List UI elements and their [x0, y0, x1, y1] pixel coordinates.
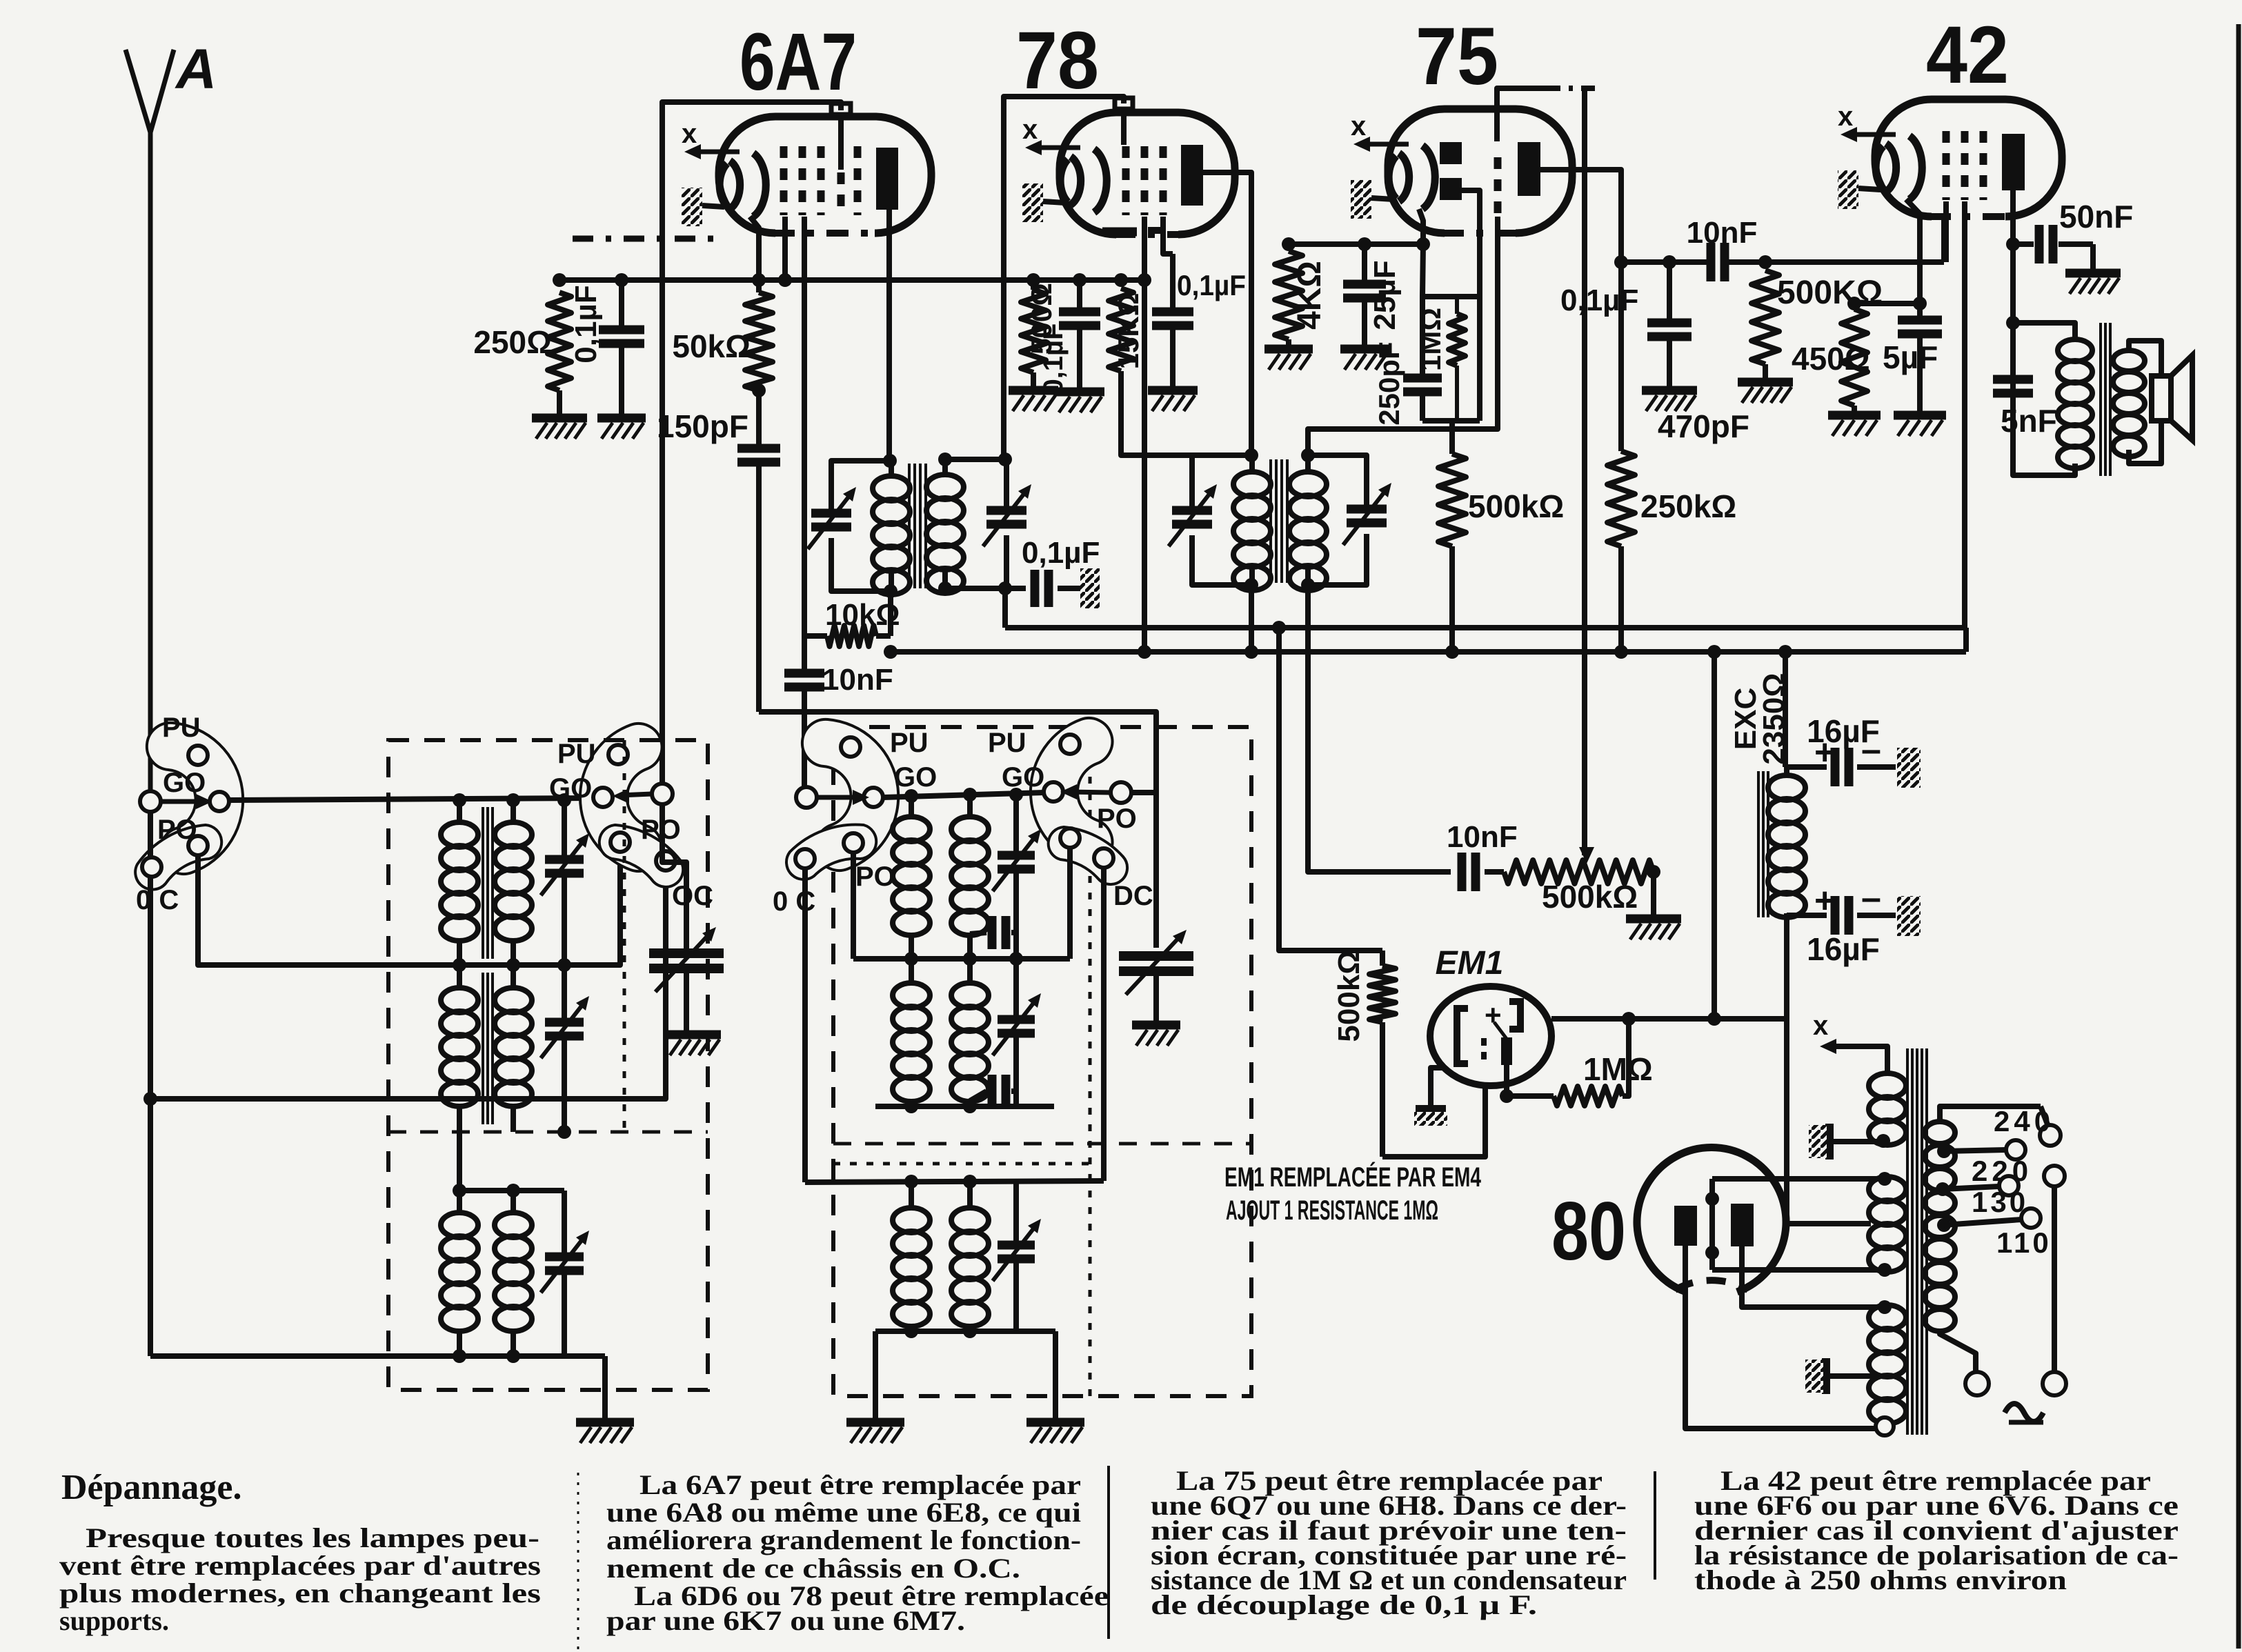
svg-text:130: 130: [1972, 1186, 2028, 1218]
arrow: [161, 799, 204, 804]
ground: [532, 414, 587, 423]
resistor 15KΩ: [1114, 273, 1128, 287]
contact from 10nF: [796, 787, 817, 808]
antenna A: [126, 50, 150, 790]
trimmer cap A box2: [1013, 795, 1019, 855]
tube 6A7 grids: [780, 146, 788, 215]
wire 75 anode lead: [1540, 170, 1621, 262]
power transformer filament winding: [1869, 1305, 1906, 1330]
IF transformer T1 secondary: [998, 452, 1012, 466]
wire EM1 target lead: [1504, 1065, 1509, 1096]
resistor 500kΩ EM1: [1369, 966, 1396, 1022]
trimmer cap C box1: [562, 1191, 567, 1257]
switch rotor OC tail: [135, 825, 221, 890]
svg-text:A: A: [175, 38, 217, 101]
svg-text:470pF: 470pF: [1658, 408, 1749, 444]
wire oscillator line: [759, 712, 1156, 948]
svg-text:2350Ω: 2350Ω: [1757, 673, 1791, 764]
svg-text:PO: PO: [157, 815, 197, 845]
tube 6A7 chassis dashes: [573, 236, 717, 242]
capacitor 16µF lower: [1787, 913, 1827, 918]
wire 6A7 grid frame: [662, 102, 841, 790]
wire: [1121, 371, 1192, 455]
svg-text:AJOUT 1 RESISTANCE 1MΩ: AJOUT 1 RESISTANCE 1MΩ: [1226, 1195, 1438, 1226]
wire AVC line: [752, 273, 766, 287]
svg-text:PU: PU: [890, 728, 929, 758]
contact osc: [1111, 782, 1131, 803]
svg-text:10nF: 10nF: [822, 663, 893, 697]
capacitor 10nF coupling det: [1458, 853, 1467, 891]
tube 42 cathode: [1876, 146, 1883, 189]
resistor 1MΩ: [1554, 1086, 1623, 1106]
field coil EXC 2350Ω: [1757, 771, 1760, 917]
wire 80 plate left lead: [1685, 1246, 1876, 1429]
column divider: [1107, 1466, 1110, 1639]
svg-text:4KΩ: 4KΩ: [1291, 261, 1328, 330]
switch rotor box2 right: [1031, 718, 1112, 866]
tube 78 heater: [1022, 183, 1043, 222]
svg-text:Presque toutes les lampes peu-: Presque toutes les lampes peu-: [86, 1522, 539, 1553]
IF transformer T1 core: [908, 464, 911, 588]
wire coupling line: [1621, 259, 1709, 265]
switch rotor PU-GO-PO box1 left: [147, 723, 243, 874]
tube 42 heater: [1838, 170, 1858, 209]
tube 78 cathode: [1060, 159, 1068, 202]
padder capacitor A box2: [970, 933, 986, 934]
coil group A box2: [909, 795, 914, 817]
tube 80: [1637, 1148, 1786, 1292]
ground: [1264, 345, 1313, 354]
contact holes: [188, 746, 208, 765]
tube 75 anode: [1518, 142, 1540, 196]
wire box2 grounds: [873, 1331, 878, 1418]
coil group B box1: [457, 965, 462, 988]
wire EXC drop: [1783, 652, 1788, 767]
wire tap 240: [1940, 1106, 2041, 1122]
wire EM1 cathode to ground: [1431, 1068, 1443, 1106]
ground: [1828, 411, 1881, 420]
svg-text:par une 6K7 ou une 6M7.: par une 6K7 ou une 6M7.: [606, 1605, 965, 1636]
switch rotor box1 right: [580, 724, 662, 871]
terminal mains 2: [2044, 1166, 2065, 1186]
tube 78: [1060, 112, 1235, 235]
tube 6A7: [719, 117, 931, 233]
wire GO line box2: [883, 793, 1044, 797]
svg-text:6A7: 6A7: [740, 17, 857, 108]
potentiometer 500kΩ: [1504, 860, 1654, 884]
capacitor 10nF coupling AF: [1707, 243, 1716, 281]
coil group C box2: [909, 1182, 914, 1208]
svg-text:0,1µF: 0,1µF: [1038, 323, 1069, 394]
ground: [1132, 1021, 1180, 1030]
output transformer core: [2099, 323, 2102, 476]
trimmer cap C box2: [1013, 1182, 1019, 1245]
resistor 250Ω: [553, 273, 566, 287]
svg-text:PO: PO: [1097, 804, 1137, 834]
wire cathode lead: [750, 217, 759, 292]
capacitor 0,1µF: [615, 273, 628, 287]
svg-text:10nF: 10nF: [1687, 216, 1758, 250]
capacitor 16µF upper: [1787, 764, 1827, 770]
svg-text:–: –: [1861, 878, 1881, 918]
tube EM1: [1430, 986, 1551, 1086]
tube 75 heater: [1351, 180, 1371, 219]
ground: [1822, 1358, 1830, 1394]
svg-text:500kΩ: 500kΩ: [1468, 488, 1564, 524]
wire OC line: [152, 870, 666, 1099]
arrow: [817, 795, 862, 800]
column divider: [577, 1473, 579, 1650]
arrow: [619, 794, 652, 795]
svg-text:supports.: supports.: [59, 1605, 169, 1636]
svg-text:110: 110: [1996, 1226, 2052, 1259]
power transformer mains winding: [1925, 1122, 1955, 1144]
svg-text:0 C: 0 C: [136, 885, 179, 915]
capacitor 0,1µF: [1073, 273, 1087, 287]
wire 42 screen lead: [1962, 201, 1967, 628]
svg-text:10kΩ: 10kΩ: [825, 598, 900, 632]
wire PO line: [198, 852, 620, 965]
contact holes: [1060, 735, 1080, 754]
capacitor 50nF: [2013, 241, 2034, 247]
resistor 450Ω: [1841, 309, 1867, 406]
ground: [597, 414, 646, 423]
wire 42 cathode lead: [1906, 199, 1920, 303]
svg-text:500kΩ: 500kΩ: [1542, 879, 1638, 915]
svg-text:GO: GO: [163, 768, 206, 798]
power transformer HV winding: [1869, 1177, 1906, 1202]
tube EM1 internals: [1457, 1008, 1468, 1064]
trimmer cap B box2: [1013, 959, 1019, 1019]
tube 80 anodes: [1674, 1206, 1697, 1246]
wire IFT1 primary bottom: [888, 591, 893, 636]
wire OC to coil bottom bus: [150, 1353, 605, 1359]
padder capacitor B box2: [970, 1091, 986, 1101]
svg-text:80: 80: [1551, 1185, 1626, 1277]
contact holes: [608, 745, 628, 764]
ground: [846, 1418, 904, 1427]
wire AVC left: [559, 277, 1144, 283]
capacitor 25µF: [1362, 244, 1367, 284]
wire: [1651, 872, 1656, 915]
svg-text:0,1µF: 0,1µF: [569, 285, 603, 363]
ground: [1009, 386, 1058, 395]
svg-text:250kΩ: 250kΩ: [1640, 488, 1736, 524]
svg-text:250Ω: 250Ω: [473, 324, 552, 360]
svg-text:10nF: 10nF: [1447, 820, 1518, 854]
tube 6A7 anode: [876, 148, 898, 210]
svg-text:x: x: [682, 119, 697, 149]
wire EM1 feed: [1272, 621, 1286, 635]
tube 42 grids: [1943, 131, 1950, 200]
svg-text:0 C: 0 C: [773, 886, 815, 917]
svg-text:5nF: 5nF: [2001, 403, 2057, 439]
wire tap 130: [1936, 1182, 1950, 1196]
dashed box 1: [388, 740, 708, 1390]
contact 6A7 grid: [652, 784, 673, 804]
ground: [666, 1031, 721, 1039]
wire 6A7 grid-2 lead: [782, 217, 788, 280]
svg-text:500kΩ: 500kΩ: [1332, 950, 1366, 1042]
tube 6A7 heater: [682, 188, 702, 226]
svg-text:DC: DC: [1113, 881, 1153, 911]
wire EM1 target to B+: [1551, 1016, 1787, 1022]
scan border right edge: [2236, 24, 2241, 1649]
svg-text:PO: PO: [855, 862, 895, 892]
svg-text:améliorera grandement le fonct: améliorera grandement le fonction-: [606, 1524, 1081, 1555]
svg-text:0,1µF: 0,1µF: [1560, 283, 1638, 317]
ground: [1055, 388, 1104, 397]
ground: [1894, 411, 1946, 420]
svg-text:150pF: 150pF: [657, 408, 748, 444]
resistor 10kΩ: [804, 633, 827, 639]
wire EXC to rectifier: [1787, 917, 1871, 1224]
power transformer core: [1906, 1048, 1909, 1435]
tube 6A7 cathode: [720, 163, 727, 206]
contact antenna: [140, 791, 161, 812]
capacitor 5nF: [1993, 375, 2033, 384]
tube 78 anode: [1181, 145, 1203, 206]
tube 75 cathode: [1389, 156, 1396, 199]
svg-text:x: x: [1022, 115, 1038, 145]
power transformer winding X: [1828, 1046, 1887, 1073]
svg-text:5µF: 5µF: [1883, 339, 1938, 375]
wire 6A7 anode lead: [886, 210, 892, 461]
svg-text:25µF: 25µF: [1368, 260, 1402, 330]
contact holes: [841, 737, 860, 757]
svg-text:50kΩ: 50kΩ: [672, 328, 751, 364]
wire T2 secondary top to 75 grid: [1308, 217, 1498, 455]
svg-text:plus modernes, en changeant le: plus modernes, en changeant les: [59, 1578, 541, 1609]
wire mains bottom: [1940, 1330, 1976, 1371]
tuning capacitor gang 1: [662, 804, 686, 953]
ground: [1626, 915, 1681, 924]
resistor 1MΩ and 250pF loop: [1422, 244, 1480, 297]
output transformer primary: [2058, 339, 2092, 361]
wire 42 anode lead: [2010, 190, 2016, 475]
ground: [2065, 269, 2121, 278]
output transformer secondary: [2113, 350, 2145, 371]
dashed box 2: [833, 727, 1251, 1396]
svg-text:0,1µF: 0,1µF: [1022, 536, 1100, 570]
svg-text:250pF: 250pF: [1373, 341, 1405, 425]
wire 80 plate right lead: [1742, 1246, 1885, 1307]
capacitor 0,1µF IFT ground: [998, 581, 1012, 595]
IF transformer T2 primary: [1244, 448, 1258, 462]
wire bus B+: [891, 649, 1966, 655]
wire osc feed: [1131, 790, 1156, 795]
tube 75 top cap wire: [1497, 88, 1545, 109]
wire GO line: [228, 798, 594, 800]
svg-text:x: x: [1351, 111, 1366, 141]
wire 78 screen lead: [1163, 217, 1173, 254]
tube 78 grids: [1121, 109, 1127, 145]
resistor 50kΩ: [745, 292, 773, 390]
coil group B box2: [909, 959, 914, 983]
tuning capacitor gang 2: [1119, 951, 1193, 961]
resistor 4KΩ: [1289, 241, 1365, 247]
svg-text:vent être remplacées par d'aut: vent être remplacées par d'autres: [59, 1550, 541, 1581]
svg-text:1MΩ: 1MΩ: [1414, 308, 1447, 371]
ground: [1825, 1124, 1834, 1160]
ground: [1738, 378, 1793, 387]
resistor 500kΩ AVC: [1449, 421, 1455, 454]
svg-text:PU: PU: [557, 739, 596, 769]
ground: [1642, 386, 1697, 395]
terminal: [1876, 1417, 1894, 1435]
wire diode 2 lead: [1462, 190, 1480, 297]
wire cathode rail 42: [1854, 301, 1920, 306]
wire cathode bias node: [1365, 241, 1423, 247]
capacitor 5µF: [1917, 303, 1923, 320]
capacitor 470pF: [1663, 255, 1676, 269]
svg-text:PU: PU: [988, 728, 1026, 758]
switch rotor box2 left: [802, 719, 898, 870]
dashed inner lines box2: [833, 1142, 1251, 1146]
svg-text:240: 240: [1994, 1105, 2054, 1137]
svg-text:78: 78: [1016, 15, 1099, 106]
tube 75: [1388, 109, 1572, 233]
arrow: [1067, 792, 1111, 793]
wire EM1 grid: [1382, 1083, 1485, 1157]
wire tap 220: [1937, 1144, 1951, 1158]
wire 6A7 osc-grid lead: [802, 217, 807, 632]
svg-text:x: x: [1813, 1011, 1828, 1041]
resistor 500KΩ grid: [1758, 255, 1772, 269]
wire 42 grid lead: [1943, 201, 1949, 262]
svg-text:une 6A8 ou même une 6E8, ce qu: une 6A8 ou même une 6E8, ce qui: [606, 1497, 1081, 1528]
wire T2 secondary bottom to volume: [1308, 585, 1451, 872]
wire bus AVC: [1005, 625, 1964, 630]
svg-text:de découplage de 0,1 µ F.: de découplage de 0,1 µ F.: [1151, 1589, 1537, 1620]
IF transformer T2 secondary: [1308, 455, 1367, 509]
mains symbol: [2005, 1404, 2043, 1422]
wire 78 cathode lead: [1142, 217, 1147, 652]
svg-text:75: 75: [1416, 11, 1498, 102]
svg-text:16µF: 16µF: [1807, 931, 1880, 967]
svg-text:PU: PU: [162, 713, 201, 743]
ground: [576, 1418, 634, 1427]
IF transformer T1 primary: [883, 454, 897, 468]
tube 75 grid: [1494, 110, 1500, 141]
tube 78 internal strap: [1102, 228, 1137, 237]
IF transformer T2 core: [1269, 459, 1272, 583]
speaker: [2152, 376, 2171, 421]
coil group C box1: [457, 1132, 462, 1191]
ground: [1026, 1418, 1084, 1427]
tube 42 anode: [2002, 134, 2025, 190]
wire antenna to OC: [148, 811, 153, 1356]
svg-text:GO: GO: [1002, 762, 1044, 793]
svg-text:15KΩ: 15KΩ: [1112, 293, 1144, 370]
wire OC line box2: [802, 868, 808, 1182]
svg-text:450Ω: 450Ω: [1792, 341, 1870, 377]
column divider: [1654, 1471, 1656, 1580]
wire 78 top frame: [1004, 97, 1124, 458]
svg-text:0,1µF: 0,1µF: [1177, 269, 1246, 301]
ground: [1148, 386, 1198, 395]
svg-text:16µF: 16µF: [1807, 713, 1880, 749]
dashed inner line box1: [388, 1131, 708, 1134]
wire T2 primary bottom to bus: [1249, 585, 1254, 652]
resistor 250kΩ: [1618, 262, 1624, 451]
tube 42: [1875, 99, 2062, 217]
svg-text:+: +: [1814, 881, 1835, 921]
wire: [1727, 259, 1944, 265]
svg-text:50nF: 50nF: [2059, 199, 2133, 235]
svg-text:Dépannage.: Dépannage.: [61, 1468, 241, 1507]
wire: [2013, 393, 2075, 475]
resistor 500Ω: [1026, 273, 1040, 287]
svg-text:GO: GO: [894, 762, 937, 793]
svg-text:nement de ce châssis en O.C.: nement de ce châssis en O.C.: [606, 1553, 1020, 1584]
ground: [1340, 345, 1389, 354]
wire 78 anode lead: [1203, 172, 1251, 455]
coil group A box1: [457, 800, 462, 822]
wire 75 cathode lead: [1419, 209, 1423, 244]
wire PO line box2: [851, 853, 856, 959]
svg-text:1MΩ: 1MΩ: [1583, 1051, 1653, 1087]
svg-text:La 6A7 peut être remplacée par: La 6A7 peut être remplacée par: [639, 1469, 1081, 1500]
capacitor 10nF: [802, 632, 807, 673]
svg-text:EM1 REMPLACÉE PAR EM4: EM1 REMPLACÉE PAR EM4: [1224, 1162, 1482, 1193]
capacitor 0,1µF screen: [1170, 254, 1175, 312]
wire tap 110: [1937, 1218, 1951, 1232]
wire 80 HV loop: [1712, 1176, 1885, 1182]
wire detector line: [1582, 88, 1587, 855]
svg-text:42: 42: [1926, 10, 2009, 101]
svg-text:thode à 250 ohms environ: thode à 250 ohms environ: [1694, 1564, 2067, 1595]
svg-text:EM1: EM1: [1436, 945, 1504, 982]
svg-text:x: x: [1838, 101, 1853, 132]
trimmer cap A box1: [562, 800, 567, 859]
trimmer cap B box1: [562, 965, 567, 1022]
capacitor 150pF: [756, 390, 762, 448]
tube 75 diode plates: [1440, 142, 1462, 164]
